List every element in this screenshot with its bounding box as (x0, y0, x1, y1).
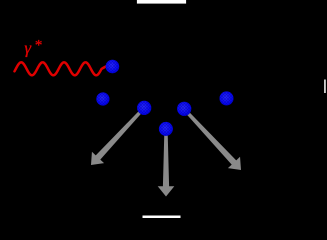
arrow left (down-left) (91, 107, 145, 165)
white bottom bar fragment (143, 216, 181, 219)
parton dot bottom-center (159, 122, 173, 136)
white right edge tick (324, 80, 326, 94)
parton dot left (96, 92, 109, 105)
parton dot mid-left (137, 101, 151, 115)
parton dot mid-right (177, 102, 191, 116)
parton dot right (220, 91, 234, 105)
photon wavy line (15, 62, 107, 75)
arrow middle (down) (158, 130, 175, 197)
svg-text:*: * (35, 37, 43, 53)
white top bar fragment (137, 0, 186, 4)
arrow right (down-right) (183, 108, 241, 170)
parton dot at photon vertex (106, 60, 120, 74)
